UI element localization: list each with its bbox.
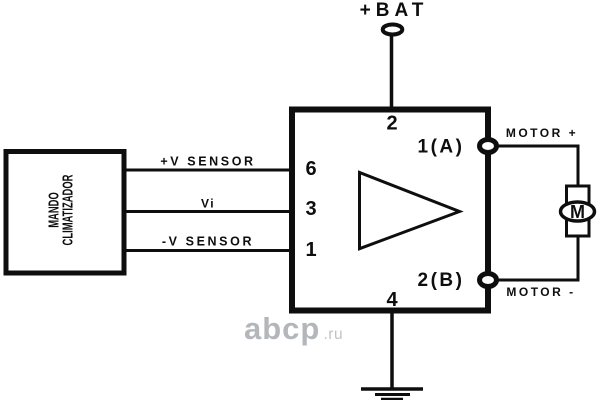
svg-text:abcp: abcp bbox=[244, 311, 320, 346]
wire Vi bbox=[124, 210, 295, 213]
svg-text:1: 1 bbox=[305, 239, 316, 261]
svg-text:1(A): 1(A) bbox=[418, 137, 465, 158]
wire +BAT to box bbox=[390, 33, 394, 109]
terminal 2(B) bbox=[480, 274, 497, 287]
svg-text:+BAT: +BAT bbox=[360, 0, 429, 21]
svg-text:2: 2 bbox=[386, 113, 397, 135]
wire motor + bbox=[497, 146, 578, 187]
amplifier triangle bbox=[360, 173, 460, 249]
svg-text:3: 3 bbox=[305, 198, 316, 220]
svg-text:2(B): 2(B) bbox=[418, 270, 465, 291]
box MANDO CLIMATIZADOR bbox=[6, 152, 124, 274]
svg-text:-V SENSOR: -V SENSOR bbox=[162, 235, 254, 249]
ground bbox=[361, 389, 423, 400]
watermark abcp.ru bbox=[244, 311, 343, 346]
wire +V SENSOR bbox=[124, 169, 295, 172]
svg-text:.ru: .ru bbox=[324, 326, 344, 343]
wire pin4 to ground bbox=[390, 310, 394, 389]
terminal 1(A) bbox=[480, 140, 497, 153]
svg-text:6: 6 bbox=[305, 158, 316, 180]
motor M1 bbox=[561, 186, 595, 236]
svg-text:Vi: Vi bbox=[201, 197, 215, 211]
terminal +BAT bbox=[383, 25, 403, 35]
driver box U1 bbox=[292, 110, 488, 311]
svg-text:CLIMATIZADOR: CLIMATIZADOR bbox=[59, 174, 76, 245]
wire motor - bbox=[497, 235, 578, 280]
wire -V SENSOR bbox=[124, 249, 295, 252]
svg-text:+V SENSOR: +V SENSOR bbox=[160, 155, 255, 169]
svg-text:MOTOR +: MOTOR + bbox=[506, 126, 578, 140]
svg-text:M: M bbox=[570, 202, 585, 222]
svg-text:MOTOR -: MOTOR - bbox=[506, 285, 575, 299]
svg-text:4: 4 bbox=[386, 289, 398, 311]
